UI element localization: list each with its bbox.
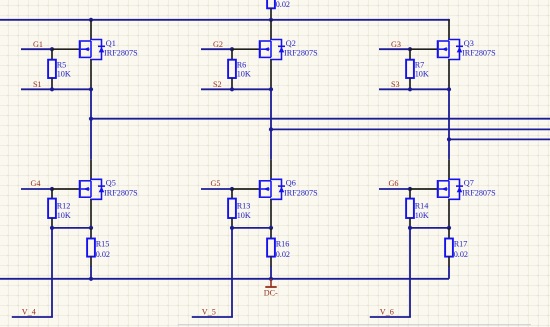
wire R16 to DC- bus	[270, 267, 272, 279]
svg-text:IRF2807S: IRF2807S	[462, 189, 496, 198]
transistor Q3 IRF2807S (top row)	[438, 40, 463, 60]
junction phase output 2	[269, 127, 273, 131]
svg-text:G5: G5	[211, 179, 221, 188]
svg-text:DC-: DC-	[264, 288, 278, 297]
pin R15 top pin	[90, 228, 92, 239]
pin Q5 source pin	[90, 199, 92, 228]
resistor R16 body	[267, 239, 275, 257]
svg-text:S2: S2	[213, 80, 222, 89]
wire net S1 horizontal	[21, 88, 91, 90]
wire bottom cell source row	[52, 227, 91, 229]
pin Q3 drain pin	[448, 20, 450, 40]
resistor R12 body	[48, 199, 56, 218]
svg-text:S3: S3	[391, 80, 400, 89]
wire phase output 1 to right edge	[91, 118, 550, 120]
junction R14 top on gate wire	[408, 187, 412, 191]
pin Q7 source pin	[448, 199, 450, 228]
wire net V_6 horizontal	[370, 316, 411, 318]
svg-text:0.02: 0.02	[454, 250, 468, 259]
junction R13 top on gate wire	[230, 187, 234, 191]
junction R5 bottom on S wire	[50, 87, 54, 91]
pin Q3 source pin	[448, 60, 450, 90]
pin Q6 source pin	[270, 199, 272, 228]
pin R12 bottom pin	[51, 218, 53, 228]
junction R13 bottom / V riser	[230, 226, 234, 230]
svg-text:IRF2807S: IRF2807S	[284, 49, 318, 58]
svg-text:10K: 10K	[415, 211, 429, 220]
wire phase column 3 vertical	[448, 89, 450, 159]
svg-text:Q6: Q6	[286, 179, 296, 188]
pin R15 bottom pin	[90, 257, 92, 267]
pin Q2 drain pin	[270, 20, 272, 40]
junction R12 top on gate wire	[50, 187, 54, 191]
svg-text:IRF2807S: IRF2807S	[104, 49, 138, 58]
junction R16 at DC- bus	[269, 277, 273, 281]
transistor Q2 IRF2807S (top row)	[260, 40, 285, 60]
pin R14 top pin	[409, 189, 411, 199]
svg-text:R14: R14	[415, 202, 429, 211]
resistor R5 body	[48, 60, 56, 78]
pin R17 bottom pin	[448, 257, 450, 267]
wire R15 to DC- bus	[90, 267, 92, 279]
svg-text:G4: G4	[31, 179, 41, 188]
pin R12 top pin	[51, 189, 53, 199]
svg-text:V_6: V_6	[380, 308, 394, 317]
junction Q1 source at S wire	[89, 87, 93, 91]
svg-text:R13: R13	[237, 202, 251, 211]
svg-text:V_5: V_5	[202, 308, 216, 317]
junction R14 bottom / V riser	[408, 226, 412, 230]
power port DC- stem	[270, 279, 272, 287]
junction R6 bottom on S wire	[230, 87, 234, 91]
wire net G5 horizontal	[201, 188, 232, 190]
resistor R17 body	[445, 239, 453, 257]
faint sheet line bottom	[178, 324, 531, 326]
wire bottom cell source row	[232, 227, 271, 229]
wire net S2 horizontal	[201, 88, 271, 90]
svg-text:G2: G2	[213, 40, 223, 49]
wire phase output 3 to right edge	[449, 138, 550, 140]
resistor R6 body	[228, 60, 236, 78]
junction R5 top on gate wire	[50, 47, 54, 51]
transistor Q5 IRF2807S (bottom row)	[80, 179, 105, 199]
wire net V_4 horizontal	[12, 316, 53, 318]
svg-text:10K: 10K	[57, 70, 71, 79]
junction R6 top on gate wire	[230, 47, 234, 51]
pin R6 bottom pin	[231, 78, 233, 89]
pin top shunt bottom pin	[270, 8, 272, 19]
junction phase output 3	[447, 137, 451, 141]
svg-text:10K: 10K	[57, 211, 71, 220]
junction R12 bottom / V riser	[50, 226, 54, 230]
junction Q2 source at S wire	[269, 87, 273, 91]
pin R13 top pin	[231, 189, 233, 199]
svg-text:0.02: 0.02	[276, 250, 290, 259]
junction Q3 source at S wire	[447, 87, 451, 91]
wire top rail corner down to Q3 drain	[448, 19, 450, 21]
wire net G4 horizontal	[21, 188, 52, 190]
wire R17 to DC- bus	[448, 267, 450, 279]
svg-text:Q5: Q5	[106, 179, 116, 188]
power port DC- bar	[265, 286, 276, 288]
svg-text:IRF2807S: IRF2807S	[462, 49, 496, 58]
svg-text:G3: G3	[391, 40, 401, 49]
wire net G1 horizontal	[21, 48, 52, 50]
wire net V_4 riser	[51, 228, 53, 317]
pin Q2 gate pin	[232, 48, 260, 50]
svg-text:Q2: Q2	[286, 39, 296, 48]
pin R7 top pin	[409, 49, 411, 60]
junction R7 bottom on S wire	[408, 87, 412, 91]
pin R6 top pin	[231, 49, 233, 60]
svg-text:IRF2807S: IRF2807S	[284, 189, 318, 198]
pin Q2 source pin	[270, 60, 272, 90]
svg-text:10K: 10K	[237, 211, 251, 220]
pin R16 bottom pin	[270, 257, 272, 267]
resistor R14 body	[406, 199, 414, 218]
pin Q1 drain pin	[90, 20, 92, 40]
svg-text:10K: 10K	[237, 70, 251, 79]
resistor R7 body	[406, 60, 414, 78]
svg-text:G1: G1	[33, 40, 43, 49]
junction Q6 source / R16 top	[269, 226, 273, 230]
wire phase output 2 to right edge	[271, 128, 550, 130]
svg-text:R16: R16	[276, 239, 290, 248]
junction phase output 1	[89, 117, 93, 121]
transistor Q7 IRF2807S (bottom row)	[438, 179, 463, 199]
wire net V_5 horizontal	[192, 316, 233, 318]
junction Q7 source / R17 top	[447, 226, 451, 230]
svg-text:0.02: 0.02	[276, 0, 290, 9]
transistor Q6 IRF2807S (bottom row)	[260, 179, 285, 199]
pin Q5 gate pin	[52, 188, 80, 190]
pin R16 top pin	[270, 228, 272, 239]
wire net G3 horizontal	[379, 48, 410, 50]
svg-text:R12: R12	[57, 202, 71, 211]
junction R15 at DC- bus	[89, 277, 93, 281]
wire bottom cell source row	[410, 227, 449, 229]
pin Q3 gate pin	[410, 48, 438, 50]
pin Q5 drain pin	[90, 159, 92, 179]
wire top positive rail (horizontal bus)	[0, 19, 449, 21]
wire net V_6 riser	[409, 228, 411, 317]
svg-text:G6: G6	[389, 179, 399, 188]
pin R5 bottom pin	[51, 78, 53, 89]
svg-text:R7: R7	[415, 60, 425, 69]
pin R7 bottom pin	[409, 78, 411, 89]
pin Q7 gate pin	[410, 188, 438, 190]
wire DC- bus (horizontal)	[0, 278, 449, 280]
pin Q7 drain pin	[448, 159, 450, 179]
junction R7 top on gate wire	[408, 47, 412, 51]
junction Q1 drain at top rail	[89, 18, 93, 22]
wire net G6 horizontal	[379, 188, 410, 190]
svg-text:10K: 10K	[415, 70, 429, 79]
svg-text:Q3: Q3	[464, 39, 474, 48]
svg-text:Q7: Q7	[464, 179, 474, 188]
pin Q1 source pin	[90, 60, 92, 90]
resistor top shunt 0.02 (body, clipped at top)	[267, 0, 275, 8]
svg-text:R6: R6	[237, 60, 247, 69]
svg-text:IRF2807S: IRF2807S	[104, 189, 138, 198]
pin Q6 drain pin	[270, 159, 272, 179]
pin R5 top pin	[51, 49, 53, 60]
svg-text:R5: R5	[57, 60, 67, 69]
wire phase column 1 vertical	[90, 89, 92, 159]
svg-text:R17: R17	[454, 239, 468, 248]
transistor Q1 IRF2807S (top row)	[80, 40, 105, 60]
wire net G2 horizontal	[201, 48, 232, 50]
resistor R13 body	[228, 199, 236, 218]
resistor R15 body	[87, 239, 95, 257]
junction Q5 source / R15 top	[89, 226, 93, 230]
pin Q1 gate pin	[52, 48, 80, 50]
svg-text:V_4: V_4	[22, 308, 36, 317]
wire phase column 2 vertical	[270, 89, 272, 159]
svg-text:S1: S1	[33, 80, 42, 89]
svg-text:0.02: 0.02	[96, 250, 110, 259]
svg-text:R15: R15	[96, 239, 110, 248]
pin R13 bottom pin	[231, 218, 233, 228]
pin Q6 gate pin	[232, 188, 260, 190]
svg-text:Q1: Q1	[106, 39, 116, 48]
wire net V_5 riser	[231, 228, 233, 317]
wire net S3 horizontal	[379, 88, 449, 90]
pin R17 top pin	[448, 228, 450, 239]
pin R14 bottom pin	[409, 218, 411, 228]
junction Q2 drain at top rail	[269, 18, 273, 22]
